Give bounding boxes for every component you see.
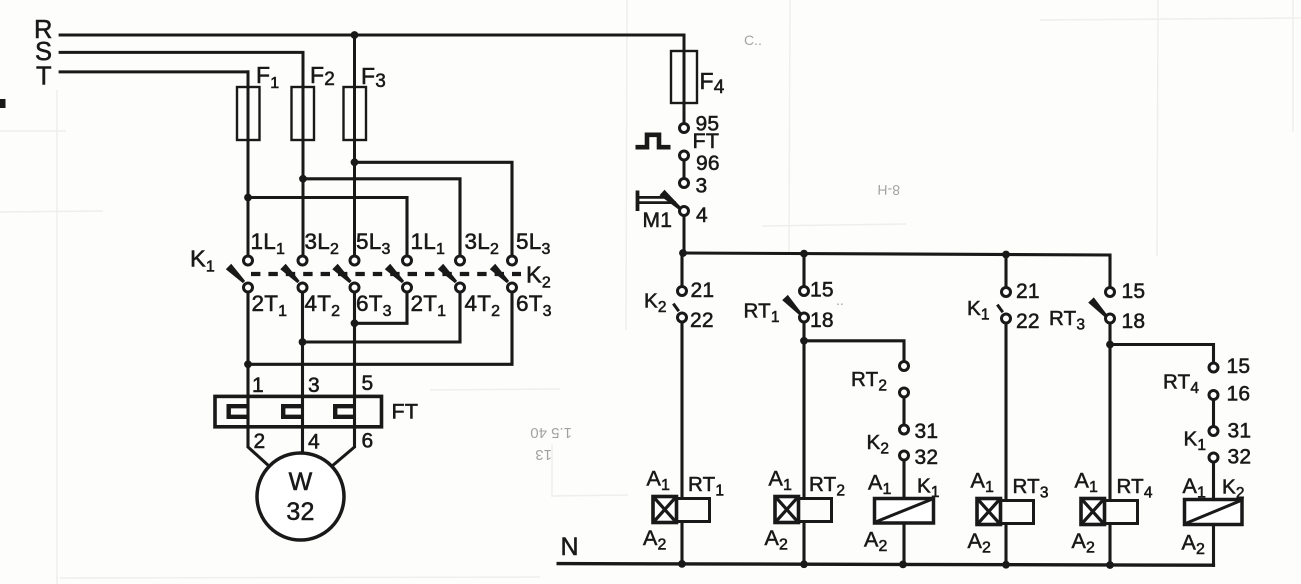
wire 32 to K2 coil xyxy=(1212,462,1215,501)
svg-text:1L1: 1L1 xyxy=(251,229,286,258)
label K2 (coil name) xyxy=(1222,476,1245,503)
svg-text:32: 32 xyxy=(286,498,314,526)
wire FT-2 to motor xyxy=(248,447,270,467)
svg-text:K1: K1 xyxy=(1184,428,1207,455)
contact K1 31-32 terminals xyxy=(1209,427,1218,463)
contact RT1 15-18 blade xyxy=(782,295,801,315)
svg-text:N: N xyxy=(561,533,579,561)
pin label 95 xyxy=(696,113,720,136)
wire bus to K1 21 xyxy=(1004,255,1007,289)
svg-text:..: .. xyxy=(836,292,844,308)
pin label 5L3 (K2) xyxy=(516,229,551,258)
svg-text:FT: FT xyxy=(392,400,419,424)
svg-text:RT2: RT2 xyxy=(851,368,887,395)
overload heater element 3 xyxy=(335,406,354,417)
label F3 xyxy=(361,63,386,92)
label A2 (RT3 coil) xyxy=(968,529,992,557)
svg-text:A2: A2 xyxy=(1072,529,1096,557)
label K1 (coil name) xyxy=(917,475,940,502)
svg-text:2T1: 2T1 xyxy=(252,291,288,320)
pin label 2T1 (K1) xyxy=(252,291,288,320)
overload heater element 2 xyxy=(283,406,302,417)
pin label 4T2 (K1) xyxy=(305,291,341,320)
svg-text:3L2: 3L2 xyxy=(305,229,340,258)
node N junction branch4 xyxy=(1002,561,1010,569)
wire K2 coil to N corner xyxy=(1212,525,1215,567)
pin 95 terminal xyxy=(680,124,689,133)
svg-text:K1: K1 xyxy=(967,297,990,324)
svg-text:15: 15 xyxy=(810,279,834,302)
wire RT4 coil to N xyxy=(1108,524,1111,566)
svg-text:RT3: RT3 xyxy=(1013,475,1049,502)
contact K1 21-22 blade tick xyxy=(997,305,1003,313)
svg-text:F1: F1 xyxy=(256,62,279,92)
pin label 3 (FT) xyxy=(308,374,320,397)
label A1 (RT2 coil) xyxy=(769,467,793,495)
node bus junction branch4 xyxy=(1002,251,1010,259)
pin label 21 (K1) xyxy=(1016,280,1040,303)
pin label 5 (FT) xyxy=(362,372,374,395)
svg-text:2: 2 xyxy=(254,430,266,453)
pin label 1L1 (K2) xyxy=(411,229,446,258)
wire FT-6 to motor xyxy=(332,447,355,467)
wire K1 coil to N xyxy=(902,523,905,564)
svg-text:RT4: RT4 xyxy=(1117,475,1153,502)
node N junction branch2 xyxy=(800,560,808,568)
timer coil RT4 xyxy=(1081,499,1138,525)
label K2 (main contactor) xyxy=(526,262,551,292)
wire RT1 coil to N xyxy=(680,522,683,564)
svg-text:1L1: 1L1 xyxy=(411,229,446,258)
svg-text:C..: C.. xyxy=(744,32,762,48)
wire K1 pole1 to FT-1 xyxy=(246,293,249,449)
svg-text:A2: A2 xyxy=(643,526,667,554)
pin label 3L2 (K1) xyxy=(305,229,340,258)
label K1 (main contactor) xyxy=(190,246,215,276)
node junction R to F3 xyxy=(351,31,359,39)
pin label 15 (RT4) xyxy=(1227,355,1251,378)
label RT4 (coil name) xyxy=(1117,475,1153,502)
svg-text:6: 6 xyxy=(362,430,374,453)
node N junction branch5 xyxy=(1106,561,1114,569)
svg-text:W: W xyxy=(289,468,313,496)
label A1 (RT3 coil) xyxy=(971,469,995,497)
mechanical link dashed line xyxy=(251,272,521,276)
svg-text:5: 5 xyxy=(362,372,374,395)
fuse F2 xyxy=(292,87,315,140)
contact K1 pole 3 blade xyxy=(332,264,351,283)
pushbutton M1 blade xyxy=(660,190,682,210)
wire branch5 to RT4 contact xyxy=(1110,345,1214,364)
label RT4 (aux contact) xyxy=(1163,371,1199,398)
label A2 (K1 coil) xyxy=(864,528,888,556)
svg-text:6T3: 6T3 xyxy=(356,291,392,320)
svg-text:A1: A1 xyxy=(868,471,892,499)
label RT2 (aux contact) xyxy=(851,368,887,395)
svg-text:A1: A1 xyxy=(1183,474,1207,502)
fuse F1 xyxy=(237,87,260,140)
wire T phase horizontal xyxy=(59,70,250,256)
svg-text:32: 32 xyxy=(915,446,939,469)
wire 32 to K1 coil xyxy=(902,460,905,500)
pin label 3 xyxy=(696,175,708,198)
pin label 1L1 (K1) xyxy=(251,229,286,258)
svg-text:K2: K2 xyxy=(644,290,667,317)
svg-text:K2: K2 xyxy=(867,431,890,458)
pin label 32 xyxy=(915,446,939,469)
svg-text:K2: K2 xyxy=(526,262,551,292)
wire control bus xyxy=(682,253,1110,288)
wire 22 to RT1 coil xyxy=(680,322,683,498)
node junction branch2 to branch3 xyxy=(800,337,808,345)
svg-text:1: 1 xyxy=(252,374,264,397)
pin label 15 xyxy=(810,279,834,302)
pin label 22 (K1) xyxy=(1016,310,1040,333)
label F1 xyxy=(256,62,279,92)
pin label 22 xyxy=(690,309,714,332)
wire F4 to 95 xyxy=(683,103,686,124)
svg-text:A2: A2 xyxy=(1182,531,1206,559)
pin label 4 (FT) xyxy=(308,431,320,454)
node junction line3/4T2 xyxy=(299,338,307,346)
svg-text:RT1: RT1 xyxy=(688,473,724,500)
contact K1 pole 1 blade xyxy=(226,264,245,283)
label A1 (K1 coil) xyxy=(868,471,892,499)
svg-text:18: 18 xyxy=(1122,310,1146,333)
pin label 21 xyxy=(691,279,715,302)
pin label 6T3 (K1) xyxy=(356,291,392,320)
svg-text:21: 21 xyxy=(1016,280,1040,303)
wire F2 to K2 pole 3L2 xyxy=(299,175,460,256)
label F2 xyxy=(310,62,335,90)
wire 18 to RT4 coil xyxy=(1108,323,1111,500)
svg-text:32: 32 xyxy=(1228,446,1252,469)
contact K2 pole 3 terminals xyxy=(508,256,517,292)
svg-text:T: T xyxy=(36,63,52,91)
svg-text:2T1: 2T1 xyxy=(411,291,447,320)
wire bus to K2 21 xyxy=(680,253,683,287)
wire RT2 coil to N xyxy=(802,522,805,565)
contact K1 pole 2 terminals xyxy=(298,256,307,292)
pin label 3L2 (K2) xyxy=(465,229,500,258)
node T (phase label) xyxy=(36,63,52,91)
svg-text:6T3: 6T3 xyxy=(516,291,552,320)
contact RT3 15-18 blade xyxy=(1088,297,1107,317)
svg-text:F3: F3 xyxy=(361,63,386,92)
svg-text:A2: A2 xyxy=(968,529,992,557)
wire N bus xyxy=(557,564,1216,566)
label A1 (RT4 coil) xyxy=(1075,469,1099,497)
wire F3 drop xyxy=(353,35,356,256)
label K1 (31-32 contact) xyxy=(1184,428,1207,455)
pin label 32 (K1) xyxy=(1228,446,1252,469)
svg-text:22: 22 xyxy=(1016,310,1040,333)
wire 4 to control bus xyxy=(683,216,686,255)
contact RT1 15-18 terminals xyxy=(800,287,809,323)
node R (phase label) xyxy=(34,16,53,44)
svg-text:18: 18 xyxy=(810,309,834,332)
wire K1 pole2 to FT-3 xyxy=(301,293,304,454)
contact K1 pole 1 terminals xyxy=(244,256,253,292)
svg-text:RT1: RT1 xyxy=(744,300,780,327)
svg-text:15: 15 xyxy=(1227,355,1251,378)
svg-text:21: 21 xyxy=(691,279,715,302)
wire K2 6T3 cross to line 1 xyxy=(248,293,512,365)
wire 18 to RT2 coil xyxy=(802,322,805,498)
svg-text:1.5 40: 1.5 40 xyxy=(530,424,572,441)
contact K2 pole 2 terminals xyxy=(456,256,465,292)
label A2 (RT1 coil) xyxy=(643,526,667,554)
fuse F3 xyxy=(344,87,367,140)
overload heater element 1 xyxy=(229,406,248,417)
label RT3 (coil name) xyxy=(1013,475,1049,502)
label RT2 (coil name) xyxy=(809,473,845,500)
wire R phase horizontal xyxy=(59,34,686,124)
svg-text:A1: A1 xyxy=(971,469,995,497)
pin label 96 xyxy=(696,152,720,175)
contact RT4 15-16 terminals xyxy=(1209,363,1218,400)
svg-text:16: 16 xyxy=(1227,383,1251,406)
node N (neutral label) xyxy=(561,533,579,561)
pin label 4T2 (K2) xyxy=(465,291,501,320)
pin label 5L3 (K1) xyxy=(356,229,391,258)
svg-text:3L2: 3L2 xyxy=(465,229,500,258)
pin 4 terminal xyxy=(680,207,689,216)
svg-text:RT2: RT2 xyxy=(809,473,845,500)
wire F1 to K2 pole 1L1 xyxy=(244,194,407,257)
svg-text:F4: F4 xyxy=(700,68,725,98)
overload relay FT box xyxy=(215,396,382,426)
pin 96 terminal xyxy=(680,151,689,160)
svg-text:A1: A1 xyxy=(1075,469,1099,497)
label F4 xyxy=(700,68,725,98)
pin label 31 xyxy=(915,420,939,443)
svg-text:RT4: RT4 xyxy=(1163,371,1199,398)
label K2 (31-32 contact) xyxy=(867,431,890,458)
wire K1 pole3 to FT-5 xyxy=(353,293,356,449)
wire branch2 to RT2 contact xyxy=(804,341,904,362)
svg-text:22: 22 xyxy=(690,309,714,332)
svg-text:5L3: 5L3 xyxy=(356,229,391,258)
svg-text:8-H: 8-H xyxy=(877,182,900,198)
pin label 15 (RT3) xyxy=(1122,280,1146,303)
wire S phase horizontal xyxy=(59,51,305,256)
wire K2 2T1 cross to line 5 xyxy=(355,293,408,324)
contactor coil K2 xyxy=(1185,500,1243,525)
wire bus to RT1 15 xyxy=(802,254,805,287)
wire 22 to RT3 coil xyxy=(1004,323,1007,500)
label K1 (aux contact) xyxy=(967,297,990,324)
contact K1 pole 2 blade xyxy=(280,264,299,283)
pin label 2T1 (K2) xyxy=(411,291,447,320)
label RT1 (coil name) xyxy=(688,473,724,500)
svg-text:31: 31 xyxy=(915,420,939,443)
pin label 31 (K1) xyxy=(1228,420,1252,443)
pin label 18 xyxy=(810,309,834,332)
pin label 16 (RT4) xyxy=(1227,383,1251,406)
label K2 (aux contact) xyxy=(644,290,667,317)
node bus junction branch2 xyxy=(800,250,808,258)
svg-text:A1: A1 xyxy=(769,467,793,495)
label A1 (K2 coil) xyxy=(1183,474,1207,502)
label A2 (K2 coil) xyxy=(1182,531,1206,559)
svg-text:A1: A1 xyxy=(647,467,671,495)
pin label 6 (FT) xyxy=(362,430,374,453)
label RT1 (aux contact) xyxy=(744,300,780,327)
node S (phase label) xyxy=(35,38,52,66)
node junction branch5 to branch6 xyxy=(1106,341,1114,349)
pin label 2 (FT) xyxy=(254,430,266,453)
label RT3 (aux contact) xyxy=(1049,307,1085,334)
label A2 (RT4 coil) xyxy=(1072,529,1096,557)
node junction line5/2T1 xyxy=(351,319,359,327)
motor M (W 32) xyxy=(257,453,344,540)
timer coil RT2 xyxy=(775,497,832,523)
svg-text:3: 3 xyxy=(308,374,320,397)
contact K2 31-32 terminals xyxy=(900,425,909,460)
contact K2 pole 1 terminals xyxy=(403,256,412,292)
svg-text:A2: A2 xyxy=(864,528,888,556)
contact K2 pole 1 blade xyxy=(385,264,404,283)
pin label 4 xyxy=(696,204,708,227)
svg-text:31: 31 xyxy=(1228,420,1252,443)
svg-text:4: 4 xyxy=(308,431,320,454)
svg-text:96: 96 xyxy=(696,152,720,175)
label FT (overload relay) xyxy=(392,400,419,424)
contact RT2 terminals xyxy=(900,362,909,398)
overload contact FT 95-96 symbol xyxy=(636,135,671,147)
wire F3 to K2 pole 5L3 xyxy=(351,158,512,256)
svg-text:F2: F2 xyxy=(310,62,335,90)
contact RT3 15-18 terminals xyxy=(1106,288,1115,324)
svg-text:3: 3 xyxy=(696,175,708,198)
contact K2 21-22 terminals xyxy=(678,287,687,323)
wire K2 4T2 cross to line 3 xyxy=(303,293,461,343)
contact K2 21-22 blade tick xyxy=(673,304,679,312)
label A1 (RT1 coil) xyxy=(647,467,671,495)
svg-text:4: 4 xyxy=(696,204,708,227)
node N junction branch1 xyxy=(678,560,686,568)
svg-text:15: 15 xyxy=(1122,280,1146,303)
wire RT3 coil to N xyxy=(1004,524,1007,565)
fuse F4 xyxy=(671,51,697,103)
svg-text:FT: FT xyxy=(693,129,720,153)
svg-text:5L3: 5L3 xyxy=(516,229,551,258)
contact K2 pole 3 blade xyxy=(490,264,509,283)
label FT (contact) xyxy=(693,129,720,153)
svg-text:4T2: 4T2 xyxy=(305,291,341,320)
label A2 (RT2 coil) xyxy=(765,526,789,554)
contact K1 21-22 terminals xyxy=(1002,288,1011,324)
wire 96 to 3 xyxy=(683,161,686,179)
timer coil RT3 xyxy=(977,499,1034,525)
svg-text:13: 13 xyxy=(535,446,552,463)
pin label 6T3 (K2) xyxy=(516,291,552,320)
timer coil RT1 xyxy=(653,497,710,523)
node N junction branch3 xyxy=(899,561,907,569)
svg-text:A2: A2 xyxy=(765,526,789,554)
label M1 xyxy=(643,209,673,232)
wire 16 to 31 xyxy=(1212,400,1215,427)
svg-text:4T2: 4T2 xyxy=(465,291,501,320)
contactor coil K1 xyxy=(875,499,934,524)
svg-text:RT3: RT3 xyxy=(1049,307,1085,334)
node junction line1/6T3 xyxy=(244,360,252,368)
pushbutton M1 actuator xyxy=(638,191,677,212)
svg-text:K1: K1 xyxy=(190,246,215,276)
svg-text:M1: M1 xyxy=(643,209,673,232)
pin label 1 (FT) xyxy=(252,374,264,397)
pin 3 terminal xyxy=(680,179,689,188)
wire RT2 to 31 xyxy=(902,397,905,425)
pin label 18 (RT3) xyxy=(1122,310,1146,333)
node bus junction branch1 xyxy=(679,249,687,257)
contact K2 pole 2 blade xyxy=(438,264,457,283)
contact K1 pole 3 terminals xyxy=(350,256,359,292)
